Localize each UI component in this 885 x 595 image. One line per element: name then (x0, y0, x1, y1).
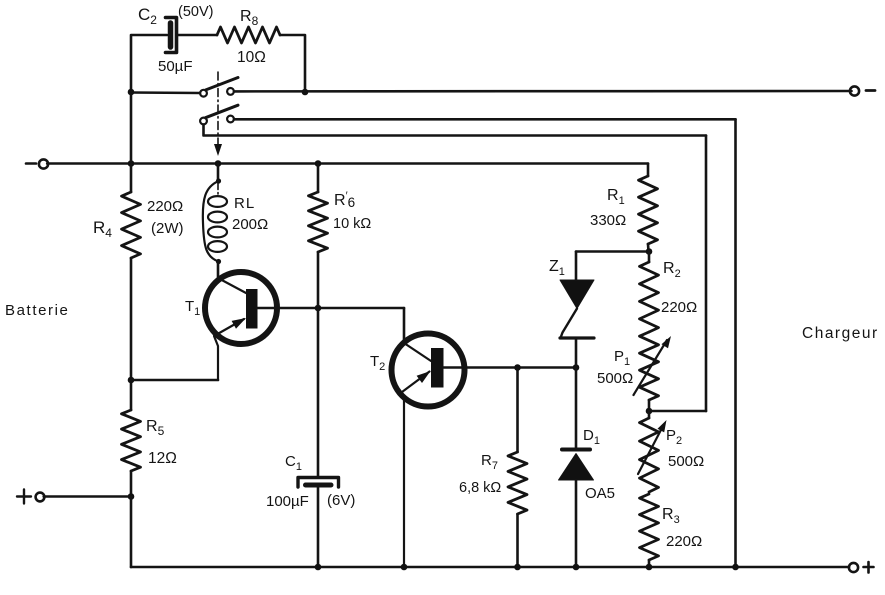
wire D1 to bottom bus (575, 480, 578, 567)
junction C1-bus (315, 564, 322, 571)
svg-text:C1: C1 (285, 453, 302, 473)
resistor R2 220ohm (640, 252, 698, 333)
resistor R1 330ohm (590, 176, 658, 252)
wire S2 left drop to inner right rail (204, 125, 707, 136)
capacitor C2 (138, 4, 213, 75)
wire bottom plus bus (131, 566, 849, 569)
junction snubber left (128, 89, 135, 96)
junction T1 emitter tap (128, 377, 135, 384)
resistor R7 6.8k (459, 368, 527, 568)
svg-text:10 kΩ: 10 kΩ (333, 216, 371, 232)
svg-text:50µF: 50µF (158, 58, 193, 75)
wire C2 to R8 (177, 34, 218, 37)
resistor R8 10ohm (217, 8, 280, 66)
wire coil to T1 collector (217, 262, 220, 279)
svg-text:P1: P1 (614, 348, 630, 368)
potentiometer P2 500ohm (638, 411, 704, 492)
wire S2 right to outer right rail (234, 118, 736, 121)
resistor R3 220ohm (640, 494, 703, 567)
wire left rail upper (130, 92, 133, 164)
wire R6 to C1 (317, 308, 320, 477)
svg-text:Batterie: Batterie (5, 302, 70, 319)
svg-text:Z1: Z1 (549, 258, 565, 278)
wire Z1 to R1/R2 junction (576, 250, 649, 253)
svg-text:220Ω: 220Ω (147, 198, 183, 215)
svg-text:R7: R7 (481, 452, 498, 472)
svg-text:220Ω: 220Ω (666, 533, 702, 550)
terminal plus (batterie) (17, 490, 44, 504)
wire plus terminal to rail (44, 495, 131, 498)
diode D1 OA5 (559, 427, 616, 502)
resistor R6 10k (309, 164, 372, 309)
relay contact S1 (200, 78, 238, 97)
wire T1 emitter horizontal (131, 379, 218, 382)
capacitor C1 100uF 6V (266, 453, 355, 510)
svg-text:C2: C2 (138, 5, 157, 27)
svg-text:12Ω: 12Ω (148, 450, 177, 467)
junction bus-relay coil (215, 160, 222, 167)
wire snubber left branch (131, 35, 167, 92)
wire rail to contact S1 (131, 91, 200, 94)
svg-text:R4: R4 (93, 218, 112, 240)
svg-text:(6V): (6V) (327, 492, 355, 509)
terminal minus (batterie) (26, 159, 48, 168)
wire T2 base line (444, 366, 577, 369)
wire left rail lower (130, 497, 133, 568)
wire main minus bus (47, 162, 648, 165)
wire left rail R4 to R5 (130, 258, 133, 410)
terminal minus (chargeur) (850, 86, 875, 95)
svg-text:330Ω: 330Ω (590, 212, 626, 229)
junction outer rail-bus (732, 564, 739, 571)
transistor T2 (370, 334, 465, 568)
junction T2 emitter-bus (401, 564, 408, 571)
svg-text:Chargeur: Chargeur (802, 325, 879, 342)
junction R1-R2-Z1 (646, 248, 653, 255)
svg-text:R5: R5 (146, 418, 165, 438)
wire bus corner to R1 (647, 164, 650, 177)
wire C1 to bottom bus (317, 487, 320, 567)
junction base-R6 (315, 305, 322, 312)
wire T2 collector feed (403, 308, 406, 343)
wire Z1 top (575, 252, 578, 281)
junction D1-bus (573, 564, 580, 571)
wire outer right rail down (734, 119, 737, 566)
svg-text:500Ω: 500Ω (668, 453, 704, 470)
terminal plus (chargeur) (849, 562, 874, 573)
junction bus-left rail (128, 160, 135, 167)
svg-text:(2W): (2W) (151, 220, 184, 237)
svg-text:6,8 kΩ: 6,8 kΩ (459, 480, 501, 496)
svg-text:R1: R1 (607, 187, 625, 207)
wire inner right rail down (705, 136, 708, 412)
wire R5 to plus junction (130, 471, 133, 497)
relay contact S2 (200, 105, 238, 124)
svg-text:200Ω: 200Ω (232, 216, 268, 233)
zener diode Z1 (549, 258, 594, 338)
svg-text:R3: R3 (662, 506, 680, 526)
wire R8 to contact line (280, 35, 305, 92)
junction R7-bus (514, 564, 521, 571)
wire base line to Z1 (575, 338, 578, 368)
junction P1-P2 (646, 408, 653, 415)
transistor T1 (185, 272, 277, 380)
svg-text:(50V): (50V) (178, 4, 213, 20)
junction R3-bus (646, 564, 653, 571)
svg-text:R8: R8 (240, 8, 259, 28)
junction bus-R6 (315, 160, 322, 167)
svg-text:R2: R2 (663, 260, 681, 280)
wire T1 base line (258, 307, 405, 310)
wire inner rail to P1 bottom (649, 410, 706, 413)
svg-text:T1: T1 (185, 298, 200, 318)
svg-text:OA5: OA5 (585, 485, 615, 502)
svg-text:100µF: 100µF (266, 493, 309, 510)
junction snubber right (302, 89, 309, 96)
relay coil RL 200ohm (203, 164, 268, 265)
svg-text:T2: T2 (370, 353, 385, 373)
svg-text:P2: P2 (666, 427, 682, 447)
junction base-R7 (514, 364, 521, 371)
wire base line to D1 (575, 368, 578, 450)
svg-text:R′6: R′6 (334, 190, 355, 210)
svg-text:10Ω: 10Ω (237, 49, 266, 66)
resistor R5 12ohm (122, 410, 177, 471)
svg-text:220Ω: 220Ω (661, 299, 697, 316)
potentiometer P1 500ohm (597, 332, 671, 411)
svg-text:RL: RL (234, 195, 254, 212)
svg-text:500Ω: 500Ω (597, 370, 633, 387)
junction plus tap (128, 493, 135, 500)
svg-text:D1: D1 (583, 427, 600, 447)
junction base-Z1/D1 (573, 364, 580, 371)
resistor R4 220ohm 2W (93, 164, 184, 259)
wire S1 to charger minus terminal (234, 90, 852, 93)
relay actuator dash-dot link (214, 72, 222, 196)
